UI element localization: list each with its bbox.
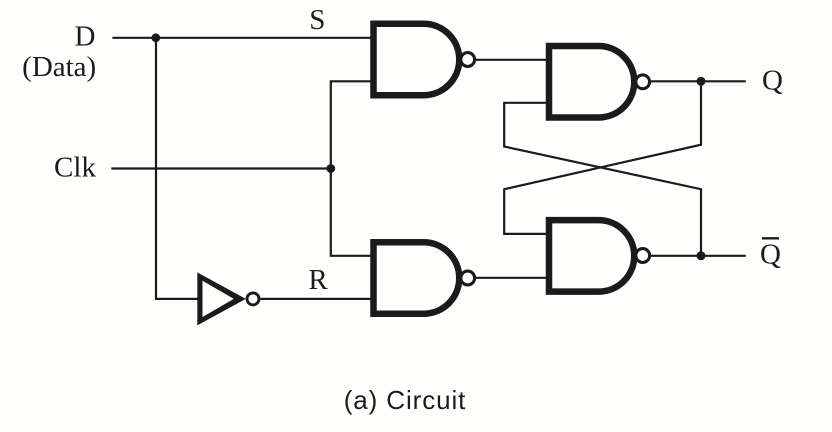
wire D/S input lead (112, 37, 377, 39)
inverter U5 (197, 272, 259, 325)
svg-text:Q: Q (762, 65, 783, 97)
wire Qbar output (650, 255, 746, 257)
wire S gate output to latch (476, 59, 552, 61)
wire Clk branch to both gate inputs (331, 81, 377, 256)
svg-text:Clk: Clk (54, 152, 96, 184)
wire Q feedback cross to lower gate (504, 81, 701, 234)
junction node Clk (326, 164, 335, 173)
svg-text:S: S (309, 4, 325, 36)
nand gate U4 bottom-right (549, 220, 650, 292)
label Qbar (760, 238, 781, 270)
junction node Q (697, 77, 706, 86)
svg-text:(a) Circuit: (a) Circuit (344, 385, 467, 415)
svg-text:R: R (308, 264, 328, 296)
svg-text:D: D (75, 21, 96, 53)
wire R gate output to latch (476, 277, 552, 279)
nand gate U3 top-right (549, 46, 650, 118)
junction node Qbar (697, 251, 706, 260)
junction node D (151, 33, 160, 42)
svg-text:Q: Q (760, 239, 781, 271)
wire Clk input lead (111, 167, 330, 169)
wire D branch down to inverter (156, 38, 199, 299)
wire R inverter output to lower NAND (261, 298, 378, 300)
nand gate U1 top-left (374, 24, 475, 96)
wire Qbar feedback cross to upper gate (504, 103, 701, 256)
svg-text:(Data): (Data) (22, 51, 96, 83)
wire Q output (650, 80, 746, 82)
nand gate U2 bottom-left (374, 242, 475, 314)
